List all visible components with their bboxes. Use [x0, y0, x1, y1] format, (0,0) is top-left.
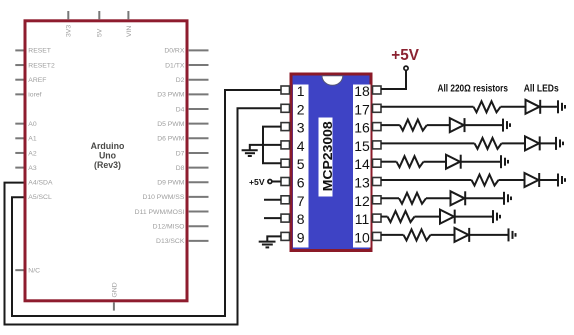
chip name label MCP23008 [319, 118, 333, 197]
svg-text:All 220Ω resistors: All 220Ω resistors [438, 83, 509, 95]
wire pin9 to ground [267, 236, 281, 241]
ground GND6 (row pin 14) [501, 155, 508, 168]
wire resistor to LED1 [501, 106, 526, 108]
svg-text:+5V: +5V [249, 177, 265, 187]
svg-text:16: 16 [354, 120, 370, 136]
svg-text:1: 1 [297, 83, 305, 99]
resistor R7 220ohm [388, 211, 415, 222]
svg-text:A5/SCL: A5/SCL [28, 194, 52, 201]
svg-text:D0/RX: D0/RX [164, 48, 184, 55]
svg-text:12: 12 [354, 193, 370, 209]
svg-text:5: 5 [297, 156, 305, 172]
right pin labels [135, 48, 185, 245]
svg-text:D13/SCK: D13/SCK [156, 238, 185, 245]
svg-text:D9 PWM: D9 PWM [157, 180, 185, 187]
svg-text:5V: 5V [97, 28, 104, 37]
ground GND9 (row pin 11) [493, 210, 500, 223]
resistor R3 220ohm [475, 138, 502, 149]
svg-text:13: 13 [354, 175, 370, 191]
resistor R4 220ohm [397, 156, 424, 167]
wire MCP pin 16 to resistor [381, 124, 400, 126]
Arduino title label [91, 141, 125, 170]
svg-text:11: 11 [355, 211, 370, 227]
wire A5/SCL to MCP pin 1 (SCL) [12, 90, 281, 316]
svg-text:ioref: ioref [28, 92, 41, 99]
svg-text:RESET: RESET [28, 48, 51, 55]
wire MCP pin 12 to resistor [381, 197, 399, 199]
ground GND4 (row pin 16) [503, 119, 510, 132]
chip right number strip [353, 85, 371, 248]
svg-text:A0: A0 [28, 121, 37, 128]
svg-text:D6 PWM: D6 PWM [157, 136, 185, 143]
svg-text:D10 PWM/SS: D10 PWM/SS [142, 194, 184, 201]
svg-text:(Rev3): (Rev3) [94, 160, 121, 170]
ground GND10 (row pin 10) [509, 228, 516, 241]
svg-text:MCP23008: MCP23008 [320, 121, 335, 191]
wire LED2 to ground [465, 124, 504, 126]
wire MCP pin 10 to resistor [381, 234, 404, 236]
svg-text:D2: D2 [176, 77, 185, 84]
resistor R5 220ohm [472, 175, 499, 186]
svg-text:Arduino: Arduino [91, 141, 125, 151]
chip pin pads left [281, 86, 290, 240]
resistor R1 220ohm [474, 101, 501, 112]
LED D2 [450, 118, 465, 132]
wire resistor to LED2 [427, 124, 450, 126]
svg-text:A2: A2 [28, 150, 37, 157]
svg-text:17: 17 [354, 101, 370, 117]
svg-text:A3: A3 [28, 165, 37, 172]
wire resistor to LED7 [415, 216, 441, 218]
svg-text:14: 14 [354, 156, 370, 172]
pin VIN stub [127, 11, 129, 19]
svg-text:GND: GND [111, 282, 118, 297]
svg-text:D5 PWM: D5 PWM [157, 121, 185, 128]
svg-text:+5V: +5V [391, 47, 419, 64]
svg-text:2: 2 [297, 101, 305, 117]
wire +5V to pin 6 [272, 181, 281, 183]
wire MCP pin 13 to resistor [381, 179, 472, 181]
svg-text:D3 PWM: D3 PWM [157, 92, 185, 99]
resistor R8 220ohm [404, 229, 431, 240]
chip left number strip [293, 85, 309, 248]
wire A4/SDA to MCP pin 2 (SDA) [5, 108, 282, 324]
left pin numbers 1-9 [297, 83, 305, 245]
svg-text:8: 8 [297, 211, 305, 227]
chip notch [322, 76, 343, 86]
svg-text:15: 15 [354, 138, 370, 154]
LED D5 [525, 173, 540, 187]
svg-text:D12/MISO: D12/MISO [153, 224, 185, 231]
ground GND2 (pin 9) [259, 242, 276, 248]
wire MCP pin 17 to resistor [381, 106, 474, 108]
ground GND5 (row pin 15) [556, 137, 563, 150]
svg-text:Uno: Uno [99, 150, 117, 160]
wire resistor to LED5 [499, 179, 525, 181]
wire pin 18 to +5V [381, 70, 406, 89]
svg-text:18: 18 [354, 83, 370, 99]
wire LED7 to ground [455, 216, 493, 218]
svg-text:A1: A1 [28, 136, 37, 143]
svg-text:9: 9 [297, 229, 305, 245]
wire LED8 to ground [469, 234, 508, 236]
Arduino Uno board outline U2 [25, 21, 187, 301]
svg-text:VIN: VIN [126, 26, 133, 37]
svg-text:AREF: AREF [28, 77, 46, 84]
svg-text:D1/TX: D1/TX [165, 62, 185, 69]
svg-text:10: 10 [354, 229, 370, 245]
wire resistor to LED8 [431, 234, 455, 236]
ground GND7 (row pin 13) [558, 174, 565, 187]
wire MCP pin 14 to resistor [381, 161, 397, 163]
ground GND3 (row pin 17) [558, 100, 565, 113]
pin 5V stub [98, 11, 100, 19]
pin GND stub [113, 302, 115, 310]
svg-text:RESET2: RESET2 [28, 62, 55, 69]
pin 3V3 stub [67, 11, 69, 19]
svg-text:D8: D8 [176, 165, 185, 172]
wire resistor to LED6 [426, 197, 451, 199]
svg-text:7: 7 [297, 193, 305, 209]
svg-text:All LEDs: All LEDs [524, 83, 559, 95]
LED D6 [451, 191, 466, 205]
LED D7 [440, 210, 455, 224]
wire LED5 to ground [539, 179, 558, 181]
wire pin8 stub [264, 217, 281, 219]
chip pin pads right [373, 86, 382, 240]
svg-text:A4/SDA: A4/SDA [28, 180, 53, 187]
svg-text:D4: D4 [176, 106, 185, 113]
wire resistor to LED4 [424, 161, 447, 163]
left pin stubs [15, 50, 23, 270]
svg-text:N/C: N/C [28, 267, 40, 274]
LED D4 [446, 155, 461, 169]
LED D3 [525, 136, 540, 150]
wire LED1 to ground [540, 106, 558, 108]
resistor R6 220ohm [399, 193, 426, 204]
svg-text:3V3: 3V3 [66, 25, 73, 37]
svg-text:D11 PWM/MOSI: D11 PWM/MOSI [135, 209, 185, 216]
wire LED3 to ground [540, 142, 556, 144]
LED D1 [526, 100, 541, 114]
right pin stubs [189, 50, 209, 240]
svg-text:D7: D7 [176, 150, 185, 157]
MCP23008 chip body U1 [291, 74, 371, 251]
ground GND8 (row pin 12) [504, 192, 511, 205]
wire pin3 pin5 tie [263, 127, 281, 164]
svg-text:3: 3 [297, 120, 305, 136]
wire LED6 to ground [465, 197, 504, 199]
wire resistor to LED3 [502, 142, 526, 144]
wire LED4 to ground [461, 161, 501, 163]
right pin numbers 18-10 [354, 83, 370, 245]
LED D8 [455, 228, 470, 242]
wire pin7 stub [264, 199, 281, 201]
wire MCP pin 15 to resistor [381, 142, 475, 144]
resistor R2 220ohm [400, 120, 427, 131]
wire pin4 to ground [250, 145, 281, 150]
ground GND1 (pins 3-5) [242, 150, 258, 156]
wire MCP pin 11 to resistor [381, 216, 388, 218]
svg-text:6: 6 [297, 175, 305, 191]
svg-text:4: 4 [297, 138, 305, 154]
left pin labels [28, 48, 55, 275]
